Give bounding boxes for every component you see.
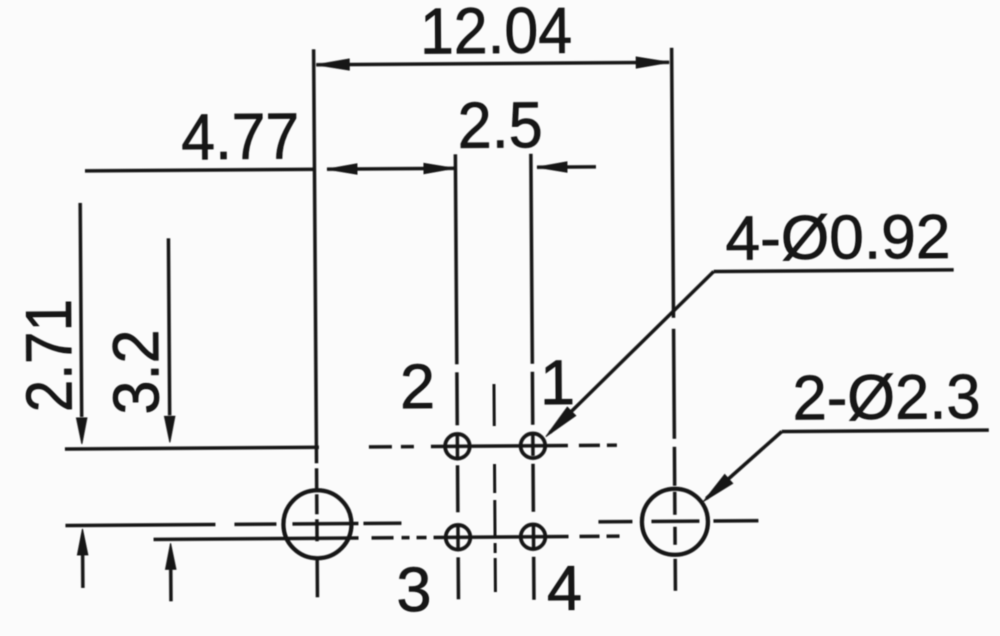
svg-text:4.77: 4.77 (181, 99, 300, 173)
svg-text:4: 4 (547, 554, 583, 624)
svg-text:2.71: 2.71 (12, 299, 86, 413)
svg-text:2-Ø2.3: 2-Ø2.3 (792, 362, 980, 433)
svg-text:3.2: 3.2 (99, 329, 173, 415)
svg-text:2.5: 2.5 (457, 88, 543, 162)
svg-text:4-Ø0.92: 4-Ø0.92 (725, 203, 950, 274)
svg-text:3: 3 (396, 555, 432, 625)
svg-text:1: 1 (540, 348, 576, 418)
svg-text:12.04: 12.04 (420, 0, 573, 68)
svg-text:2: 2 (400, 352, 436, 422)
